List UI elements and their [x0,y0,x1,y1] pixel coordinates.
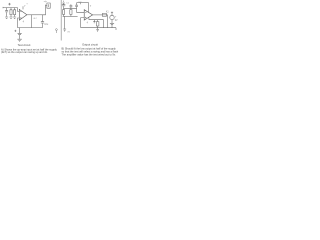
capacitor C2 [41,15,44,28]
labels left circuit [23,1,49,26]
ground drop input section [63,16,66,31]
op-amp U2 [84,10,92,20]
capacitor C4 [62,3,65,10]
capacitor C5 [75,3,78,9]
op-amp U1 [19,9,27,20]
ground [17,39,21,41]
wire bottom rail [81,28,116,30]
battery B1 [110,23,114,27]
wire to inverting input [77,8,85,12]
svg-text:9V: 9V [115,20,118,22]
resistor R1 [10,8,12,17]
resistor R4 [70,8,72,16]
svg-text:10u: 10u [44,23,49,26]
capacitor C1 [5,8,8,17]
wire output branch [107,15,109,28]
wire output [93,14,108,16]
resistor R3 [63,10,65,17]
wire input rail [64,7,77,9]
wire feedback rail [77,2,89,4]
node tick [80,3,82,5]
ground [93,20,95,23]
ground [5,17,8,18]
supply pin wire [88,3,90,13]
resistor R6 [96,20,99,28]
node b [56,29,58,31]
wire output [27,14,43,16]
wire noninverting input [81,18,85,28]
wire branch node [30,15,32,28]
svg-text:The amplifier value has the te: The amplifier value has the test wired o… [62,52,116,56]
wire ground rail input [63,15,78,17]
wire noninverting to ground rail [18,18,20,28]
resistor R5 [102,13,106,16]
wire lower network [89,18,104,28]
svg-text:(4k7) so the output can swing: (4k7) so the output can swing up and dn. [1,50,48,54]
meter M1 [111,12,113,15]
wire output to connector [43,5,46,15]
divider rule [60,0,62,41]
supply pin 7 [22,6,24,9]
ground [10,17,13,18]
ground [13,17,16,18]
wire input rail left circuit [3,7,18,8]
wire to inverting input [18,8,20,12]
capacitor C6 trimmer [70,4,73,8]
capacitor C3 polarized [18,28,22,39]
supply terminal [62,2,64,4]
node marker plus label [8,3,10,6]
ground [96,28,99,32]
labels right circuit [66,1,118,33]
svg-text:Output circuit: Output circuit [82,42,98,46]
svg-text:Test circuit: Test circuit [18,43,31,47]
resistor R2 [14,8,16,17]
connector J1 [46,3,51,8]
wire ground rail [18,27,43,29]
